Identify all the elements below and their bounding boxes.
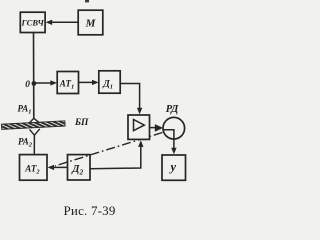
wire GSVCh down to node 0 and to BP fork <box>33 33 35 120</box>
fork above BP <box>29 118 40 123</box>
svg-text:М: М <box>85 18 97 30</box>
block U (recorder) <box>162 155 186 180</box>
amplifier U2 (triangle in box) <box>128 115 150 139</box>
svg-text:РД: РД <box>166 104 179 115</box>
svg-text:0: 0 <box>25 80 30 90</box>
dash-dot mechanical link RD to AT2 <box>55 133 162 166</box>
wire amplifier to RD with filled arrowhead <box>150 124 164 132</box>
slotted line BP hatched bar <box>1 121 65 130</box>
node 0 junction dot <box>32 81 37 86</box>
wire D1 right, elbow down to amplifier with arrowhead <box>120 84 142 115</box>
fork below BP and wire down to AT2 <box>30 129 40 155</box>
block AT1 (attenuator) <box>57 72 78 94</box>
stray mark above M (scan remnant) <box>85 0 89 2</box>
svg-text:БП: БП <box>74 118 89 128</box>
wire M to GSVCh with arrowhead <box>46 20 78 25</box>
svg-text:Рис. 7-39: Рис. 7-39 <box>64 203 116 218</box>
wire AT1 to D1 with arrowhead <box>79 80 99 85</box>
svg-text:у: у <box>169 160 177 174</box>
block D2 (detector) <box>68 155 91 180</box>
block GSVCh U1 <box>20 12 45 32</box>
wire D2 to AT2 with arrowhead <box>48 165 68 170</box>
block M (modulator) <box>78 10 103 35</box>
motor RD circle <box>163 117 185 139</box>
block D1 (detector) <box>99 71 120 93</box>
wire inside RD, down to U with arrowhead <box>163 130 176 155</box>
block AT2 (attenuator) <box>20 155 48 181</box>
svg-text:ГСВЧ: ГСВЧ <box>21 18 45 28</box>
wire node 0 to AT1 with arrowhead <box>34 80 57 85</box>
wire D2 right, elbow up to amplifier with arrowhead <box>90 140 144 169</box>
